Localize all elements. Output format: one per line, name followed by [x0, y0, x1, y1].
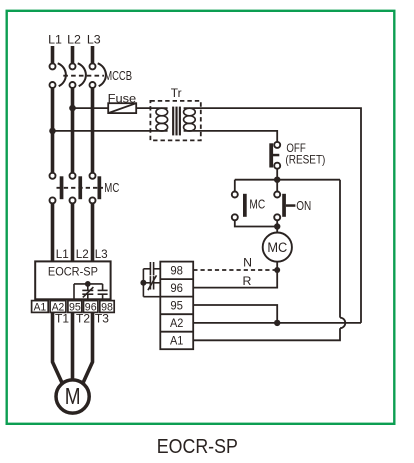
- svg-text:R: R: [243, 274, 252, 288]
- wire L1 MC to relay: [51, 203, 55, 313]
- motor M: [56, 380, 89, 413]
- wire fuse to transformer: [136, 107, 167, 109]
- svg-text:95: 95: [170, 299, 183, 313]
- wire L2 MC to relay: [71, 203, 75, 313]
- svg-text:EOCR-SP: EOCR-SP: [157, 436, 238, 458]
- contact MC auxiliary: [232, 192, 247, 221]
- terminal 96 box: [84, 301, 98, 314]
- breaker MCCB pole 2: [70, 63, 86, 88]
- breaker MCCB pole 1: [50, 63, 66, 88]
- contactor MC pole 1: [50, 173, 64, 204]
- junction left rail: [140, 280, 146, 286]
- svg-text:(RESET): (RESET): [285, 154, 325, 167]
- wire A2 line: [193, 322, 361, 324]
- breaker MCCB pole 3: [90, 63, 106, 88]
- wire node to coil: [276, 227, 278, 233]
- svg-text:L2: L2: [67, 33, 81, 47]
- pushbutton ON: [274, 192, 295, 221]
- junction below OFF: [274, 177, 280, 183]
- svg-text:A1: A1: [170, 334, 184, 348]
- terminal 98 box: [100, 301, 114, 314]
- wire A1 line: [193, 328, 340, 340]
- contactor MC pole 2: [70, 173, 83, 204]
- svg-text:MC: MC: [267, 240, 287, 255]
- svg-text:M: M: [65, 383, 81, 409]
- wire fuse tap: [73, 107, 109, 109]
- wire L3 top stub: [91, 46, 95, 63]
- svg-text:T2: T2: [76, 312, 90, 326]
- wire junction rail: [235, 179, 340, 181]
- svg-text:MC: MC: [104, 180, 119, 195]
- relay internal node: [85, 281, 91, 287]
- svg-text:N: N: [243, 256, 252, 270]
- wire L1 top stub: [51, 46, 55, 63]
- terminal block right: [160, 262, 193, 350]
- wire transformer bottom to OFF button: [184, 131, 278, 142]
- wire hop over A2 line: [340, 318, 345, 329]
- terminal A1 box: [32, 301, 49, 314]
- svg-text:96: 96: [170, 281, 183, 295]
- wire L2 top stub: [71, 46, 75, 63]
- svg-text:MCCB: MCCB: [104, 69, 132, 83]
- wire T3 to motor: [83, 312, 93, 383]
- terminal A2 box: [50, 301, 66, 314]
- wire OFF to junction: [276, 169, 278, 180]
- svg-text:L1: L1: [56, 247, 69, 261]
- junction on A2 line: [274, 320, 280, 326]
- transformer Tr: [150, 101, 200, 140]
- wire N dashed: [193, 269, 274, 271]
- svg-text:A1: A1: [34, 301, 47, 313]
- wire L3 MCCB to MC: [91, 88, 95, 173]
- wire MC contact to node: [235, 220, 277, 226]
- svg-text:T3: T3: [95, 312, 109, 326]
- svg-text:Fuse: Fuse: [108, 93, 137, 106]
- MCCB linkage dashed: [63, 75, 104, 77]
- wire left contact rail: [142, 269, 144, 297]
- svg-text:L3: L3: [87, 33, 101, 47]
- svg-text:L3: L3: [95, 247, 108, 261]
- svg-text:MC: MC: [249, 196, 265, 211]
- svg-text:A2: A2: [170, 316, 184, 330]
- wire L1 to transformer bottom: [53, 130, 168, 132]
- svg-text:Tr: Tr: [171, 88, 182, 100]
- contact 98 NO: [143, 262, 160, 275]
- relay internal contacts: [74, 284, 108, 301]
- wire T2 to motor: [71, 312, 75, 380]
- wire junction to ON: [276, 180, 278, 192]
- fuse Fuse: [108, 103, 136, 113]
- junction on L2 fuse tap: [69, 105, 76, 112]
- relay EOCR-SP: [35, 261, 110, 299]
- junction above coil: [274, 223, 280, 229]
- wire L3 MC to relay: [91, 203, 95, 313]
- svg-text:EOCR-SP: EOCR-SP: [48, 265, 98, 279]
- contactor MC linkage dashed: [57, 187, 104, 189]
- junction N tap: [274, 267, 280, 273]
- svg-text:ON: ON: [296, 199, 311, 213]
- svg-text:98: 98: [170, 264, 183, 278]
- wire left rail to block: [143, 296, 160, 298]
- terminal 95 box: [68, 301, 82, 314]
- svg-text:L2: L2: [76, 247, 89, 261]
- wire transformer top to right rail: [184, 108, 361, 323]
- wire 95 to A2 line: [193, 305, 277, 323]
- svg-text:L1: L1: [48, 33, 62, 47]
- wire ON to node: [276, 220, 278, 226]
- svg-text:T1: T1: [55, 312, 69, 326]
- contactor MC pole 3: [90, 173, 102, 204]
- wire coil to R line: [193, 262, 277, 288]
- wire down to MC contact: [234, 180, 236, 192]
- wire A1 riser to junction rail: [339, 180, 341, 318]
- pushbutton OFF (RESET): [269, 142, 280, 169]
- coil MC: [263, 233, 292, 262]
- wire L1 MCCB to MC: [51, 88, 55, 173]
- wire T1 to motor: [53, 312, 63, 383]
- junction on L1 control tap: [49, 128, 56, 135]
- contact 96 NC: [143, 275, 160, 290]
- wire L2 MCCB to MC: [71, 88, 75, 173]
